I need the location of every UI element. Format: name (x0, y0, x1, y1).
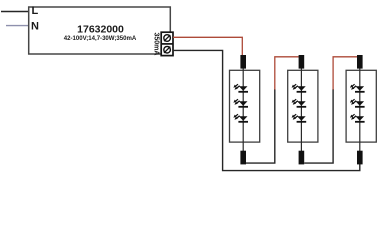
wire link module LM1 to LM2 black part (246, 89, 275, 163)
wire L input (1, 11, 29, 13)
LED D7 (350, 84, 365, 93)
wire link module LM1 to LM2 red part (275, 57, 299, 90)
LED D4 (292, 84, 307, 93)
svg-text:17632000: 17632000 (77, 24, 124, 36)
module LM1 internal wire (242, 68, 244, 152)
LED module LM3 (346, 55, 376, 164)
connector LM3 bottom (357, 151, 363, 165)
module LM1 outline (230, 70, 260, 142)
LED D2 (233, 99, 248, 108)
connector LM1 bottom (240, 151, 246, 165)
screw terminal plus (164, 35, 171, 42)
svg-text:N: N (31, 20, 39, 32)
screw terminal minus (164, 46, 171, 53)
wire link module LM2 to LM3 black part (304, 89, 333, 163)
connector LM3 top (357, 55, 363, 69)
module LM3 outline (346, 70, 376, 142)
wire red driver plus to module LM1 (173, 37, 242, 55)
wire black driver minus return (173, 50, 360, 170)
LED module LM1 (230, 55, 260, 164)
svg-text:350mA: 350mA (152, 33, 159, 56)
connector LM2 bottom (299, 151, 305, 165)
LED D3 (233, 114, 248, 123)
module LM2 outline (288, 70, 318, 142)
connector LM1 top (240, 55, 246, 69)
svg-text:42-100V;14,7-30W;350mA: 42-100V;14,7-30W;350mA (64, 36, 137, 42)
LED D8 (350, 99, 365, 108)
terminal block output (161, 32, 173, 55)
LED module LM2 (288, 55, 318, 164)
LED D6 (292, 114, 307, 123)
svg-text:L: L (32, 5, 39, 17)
LED D1 (233, 84, 248, 93)
module LM2 internal wire (300, 68, 302, 152)
module LM3 internal wire (359, 68, 361, 152)
LED D9 (350, 114, 365, 123)
LED D5 (292, 99, 307, 108)
wire N input (6, 25, 29, 27)
LED driver U1 (29, 7, 171, 54)
wire link module LM2 to LM3 red part (333, 57, 357, 90)
connector LM2 top (299, 55, 305, 69)
